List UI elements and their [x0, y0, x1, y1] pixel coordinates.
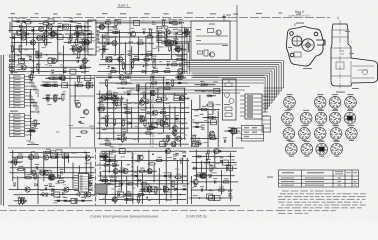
wire [95, 22, 184, 24]
value label [63, 30, 66, 31]
svg-text:Б: Б [294, 23, 296, 27]
capacitor C23 [111, 66, 114, 68]
value label [307, 172, 324, 173]
wire [37, 174, 39, 204]
wire [65, 33, 94, 35]
transistor VT51 [86, 192, 91, 197]
resistor R41 [144, 58, 149, 60]
value label [75, 39, 80, 40]
wire [33, 27, 35, 74]
value label [45, 82, 50, 83]
wire [113, 92, 115, 141]
value label [118, 139, 124, 140]
transistor VT47 [28, 155, 33, 160]
wire [25, 131, 31, 133]
value label [180, 159, 184, 160]
resistor R159 [201, 175, 206, 177]
value label [179, 98, 183, 99]
value label [108, 128, 113, 129]
diode VD26 [35, 183, 38, 186]
wire [169, 105, 171, 130]
wire [74, 180, 79, 182]
value label [174, 188, 178, 189]
value label [106, 94, 110, 95]
value label [85, 188, 88, 189]
value label [18, 154, 23, 155]
resistor R109 [232, 128, 234, 133]
capacitor C16 [87, 32, 90, 34]
diode VD18 [148, 111, 151, 114]
resistor R19 [74, 33, 79, 35]
resistor R30 [99, 26, 104, 28]
transistor VT69 [83, 109, 88, 114]
wire [99, 112, 190, 114]
capacitor C60 [201, 127, 204, 129]
diode VD22 [164, 122, 167, 125]
value label [167, 44, 172, 45]
wire [205, 158, 207, 191]
resistor R157 [210, 166, 212, 171]
value label [111, 189, 114, 190]
wire [240, 111, 245, 113]
capacitor C29 [106, 42, 108, 45]
module DA2 box [223, 79, 237, 120]
value label [33, 173, 38, 174]
resistor R146 [164, 187, 166, 192]
node junction [116, 102, 118, 104]
resistor R111 [85, 181, 87, 186]
tube socket V1 [284, 94, 296, 110]
value label [63, 154, 68, 155]
component block [115, 100, 121, 105]
wire [97, 107, 189, 109]
wire [240, 99, 245, 101]
value label [85, 184, 90, 185]
capacitor C73 [60, 171, 62, 174]
value label [81, 37, 84, 38]
capacitor C70 [51, 193, 54, 195]
wire [182, 44, 184, 74]
value label [134, 103, 139, 104]
value label [145, 65, 149, 66]
value label [151, 90, 155, 91]
value label [65, 153, 69, 154]
wire [192, 109, 220, 111]
wire [99, 48, 109, 50]
value label [201, 91, 205, 92]
resistor R92 [9, 64, 14, 66]
value label [164, 40, 169, 41]
component block [214, 88, 220, 93]
wire [174, 97, 190, 99]
value label [288, 47, 292, 48]
value label [166, 46, 171, 47]
value label [123, 92, 128, 93]
wire [14, 34, 16, 63]
diode VD37 [112, 164, 115, 167]
value label [137, 196, 142, 197]
wire [33, 83, 35, 91]
wire [231, 134, 233, 147]
wire [98, 175, 187, 177]
wire [25, 98, 35, 100]
value label [110, 146, 114, 147]
transistor VT33 [141, 98, 146, 103]
value label [113, 118, 118, 119]
resistor R15 [45, 40, 47, 45]
wire [166, 29, 168, 43]
value label [172, 61, 177, 62]
resistor R23 [104, 36, 109, 38]
transistor VT49 [50, 175, 55, 180]
wire [107, 24, 109, 34]
node junction [112, 26, 114, 28]
value label [212, 172, 217, 173]
resistor R40 [177, 58, 182, 60]
value label [54, 95, 59, 96]
wire [97, 26, 117, 28]
bus wire [190, 70, 272, 72]
value label [42, 34, 46, 35]
diode VD34 [58, 175, 61, 178]
wire [196, 35, 228, 37]
value label [152, 61, 157, 62]
wire [99, 180, 189, 182]
node junction [84, 26, 86, 28]
resistor R87 [107, 93, 112, 95]
value label [173, 24, 178, 25]
capacitor C40 [42, 84, 45, 86]
transistor VT62 [163, 187, 168, 192]
value label [15, 76, 21, 77]
wire [25, 105, 39, 107]
value label [44, 20, 49, 21]
node junction [221, 162, 223, 164]
value label [35, 164, 39, 165]
transistor VT60 [138, 155, 143, 160]
value label [124, 196, 128, 197]
value label [15, 79, 21, 80]
resistor R144 [106, 159, 111, 161]
diode VD13 [174, 42, 177, 45]
value label [349, 52, 354, 55]
notes text line [278, 213, 308, 214]
capacitor C69 [64, 199, 67, 201]
value label [107, 91, 112, 92]
wire [161, 42, 188, 44]
resistor R61 [87, 83, 89, 88]
wire [49, 150, 51, 158]
transistor VT41 [231, 128, 236, 133]
value label [77, 103, 81, 104]
wire [150, 76, 152, 147]
device side view axis [339, 20, 341, 90]
wire [11, 26, 91, 28]
diode VD2 [51, 70, 54, 73]
wire [9, 151, 90, 153]
wire [176, 160, 178, 204]
resistor R21 [21, 33, 26, 35]
resistor R100 [105, 121, 107, 126]
wire [133, 82, 264, 84]
wire [121, 161, 123, 191]
tube socket V2 [314, 94, 326, 110]
value label [17, 55, 22, 56]
wire [262, 103, 268, 105]
value label [171, 180, 176, 181]
capacitor C79 [114, 164, 116, 167]
component block [142, 187, 148, 192]
value label [175, 39, 179, 40]
wire [25, 82, 35, 84]
capacitor C45 [178, 81, 181, 83]
capacitor C55 [143, 94, 145, 97]
wire [96, 38, 100, 40]
node junction [40, 194, 42, 196]
value label [115, 171, 120, 172]
value label [46, 149, 51, 150]
value label [208, 190, 214, 191]
wire [161, 36, 163, 38]
transistor VT36 [180, 96, 185, 101]
value label [296, 14, 301, 15]
value label [202, 172, 207, 173]
resistor R151 [149, 163, 154, 165]
value label [137, 155, 142, 156]
wire [158, 31, 160, 52]
resistor R139 [127, 198, 132, 200]
value label [54, 202, 58, 203]
value label [228, 127, 232, 128]
resistor R86 [156, 122, 161, 124]
resistor R72 [152, 82, 157, 84]
value label [51, 191, 55, 192]
wire [12, 150, 14, 181]
resistor R128 [51, 156, 56, 158]
value label [63, 197, 67, 198]
capacitor C43 [157, 40, 162, 42]
value label [117, 135, 121, 136]
value label [173, 29, 178, 30]
value label [182, 186, 186, 187]
bus wire [193, 74, 268, 76]
node junction [23, 200, 25, 202]
value label [281, 177, 294, 180]
value label [50, 174, 55, 175]
value label [159, 87, 162, 88]
tube socket V8 [329, 110, 341, 126]
value label [62, 196, 65, 197]
wire [142, 173, 144, 204]
resistor R63 [62, 95, 64, 100]
value label [200, 114, 204, 115]
wire [162, 40, 165, 42]
value label [103, 154, 113, 155]
value label [101, 95, 105, 96]
value label [112, 181, 115, 182]
value label [102, 45, 106, 46]
resistor R141 [139, 170, 144, 172]
wire [240, 107, 245, 109]
node junction [72, 177, 74, 179]
value label [173, 19, 178, 20]
resistor R149 [101, 156, 106, 158]
value label [111, 68, 116, 69]
value label [102, 177, 107, 178]
resistor R131 [137, 197, 139, 202]
value label [60, 169, 64, 170]
capacitor C33 [167, 63, 169, 66]
capacitor C43 [151, 93, 153, 96]
value label [209, 165, 214, 166]
wire [194, 175, 235, 177]
value label [27, 176, 30, 177]
diode VD33 [167, 40, 170, 43]
capacitor C35 [45, 84, 47, 87]
value label [296, 23, 304, 24]
resistor R18 [51, 33, 56, 35]
resistor R34 [153, 62, 155, 67]
value label [102, 129, 107, 130]
value label [335, 170, 343, 173]
value label [157, 97, 162, 98]
wire [191, 100, 193, 147]
value label [121, 156, 125, 157]
wire [89, 180, 94, 182]
capacitor C72 [49, 176, 52, 178]
value label [82, 174, 87, 175]
capacitor C75 [57, 199, 60, 201]
value label [120, 99, 124, 100]
value label [182, 123, 185, 124]
value label [175, 169, 179, 170]
value label [162, 115, 167, 116]
bus wire bend [273, 69, 275, 100]
bus wire [186, 64, 279, 66]
resistor R154 [102, 179, 107, 181]
wire [37, 106, 39, 114]
transistor VT54 [31, 170, 36, 175]
resistor R116 [34, 174, 36, 179]
capacitor C62 [223, 140, 225, 143]
value label [15, 128, 21, 129]
value label [157, 40, 161, 41]
transistor VT8 [84, 40, 89, 45]
node junction [104, 156, 106, 158]
wire [100, 172, 102, 182]
value label [165, 85, 170, 86]
wire [136, 86, 250, 88]
tube socket V15 [286, 141, 298, 157]
wire [126, 176, 128, 204]
wire [171, 43, 173, 60]
contact block S3 inner [244, 127, 257, 137]
wire [131, 107, 133, 128]
component block [160, 142, 166, 147]
value label [305, 180, 324, 183]
value label [69, 34, 74, 35]
value label [121, 135, 126, 136]
value label [345, 30, 350, 33]
resistor R105 [208, 116, 213, 118]
wire [119, 30, 121, 74]
wire [89, 182, 94, 184]
value label [63, 184, 65, 185]
value label [108, 37, 113, 38]
value label [29, 142, 34, 143]
value label [45, 82, 49, 83]
wire [3, 55, 5, 206]
value label [146, 113, 151, 114]
wire [224, 130, 239, 132]
wire [70, 24, 72, 39]
transistor VT2 [21, 35, 26, 40]
value label [278, 13, 282, 14]
node junction [32, 60, 34, 62]
value label [15, 95, 21, 96]
wire [31, 102, 38, 104]
value label [127, 51, 131, 52]
value label [16, 18, 20, 19]
value label [26, 55, 31, 56]
wire [203, 117, 219, 119]
resistor R88 [146, 132, 151, 134]
capacitor C87 [183, 154, 186, 156]
wire [24, 168, 26, 179]
value label [165, 103, 170, 104]
wire [96, 93, 187, 95]
value label [80, 39, 85, 40]
resistor R120 [18, 168, 23, 170]
value label [76, 193, 81, 194]
bus wire stub [264, 111, 266, 113]
capacitor C95 [228, 193, 231, 195]
device side view interior lines [331, 30, 374, 83]
tube socket V10 [283, 125, 295, 141]
value label [123, 83, 129, 84]
value label [100, 23, 105, 24]
wire [84, 46, 88, 48]
node junction [197, 109, 199, 111]
wire [70, 95, 95, 97]
value label [281, 184, 294, 187]
value label [61, 94, 66, 95]
node junction [204, 162, 206, 164]
value label [136, 85, 141, 86]
notes text line [278, 199, 365, 200]
node junction [198, 138, 200, 140]
value label [338, 177, 342, 180]
component block [57, 34, 63, 39]
value label [15, 124, 21, 125]
value label [101, 155, 105, 156]
transistor VT12 [30, 40, 35, 45]
transistor VT35 [139, 100, 144, 105]
capacitor C10 [39, 55, 42, 57]
wire [217, 111, 219, 148]
value label [216, 104, 221, 105]
bus wire bend [280, 63, 282, 91]
resistor R134 [104, 154, 106, 159]
resistor R93 [99, 109, 104, 111]
value label [45, 64, 48, 65]
wire [62, 45, 64, 74]
value label [226, 15, 231, 16]
value label [117, 191, 121, 192]
value label [81, 197, 86, 198]
node junction [152, 153, 154, 155]
value label [26, 71, 29, 72]
